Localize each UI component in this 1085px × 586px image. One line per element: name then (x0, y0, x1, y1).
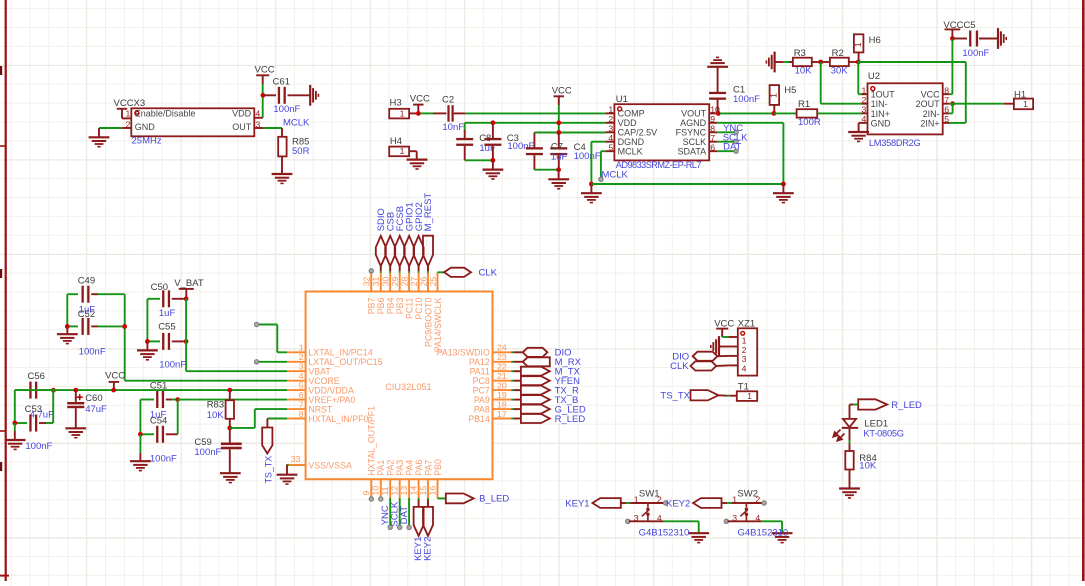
svg-text:R2: R2 (832, 48, 844, 59)
port flag KEY2 (MCU) (427, 498, 429, 500)
svg-text:TS_TX: TS_TX (660, 390, 690, 401)
svg-text:1IN+: 1IN+ (871, 109, 890, 119)
port flag DIO (MCU) (511, 351, 514, 353)
svg-text:100nF: 100nF (962, 48, 989, 59)
wire CAP rail y132 to U1 pin3 (534, 132, 605, 134)
svg-text:2: 2 (608, 114, 613, 124)
capacitor C4 body (left of C7) (533, 133, 535, 149)
svg-text:PB7: PB7 (367, 298, 377, 315)
svg-text:C60: C60 (85, 393, 102, 404)
wire pin9 stub (369, 497, 373, 501)
svg-text:VCC: VCC (552, 85, 572, 96)
sheet border left (5, 0, 7, 581)
svg-text:TS_TX: TS_TX (263, 456, 273, 484)
wire R_LED to LED1 (853, 404, 858, 406)
MCU pin 28 PC11 (408, 273, 410, 292)
svg-text:1OUT: 1OUT (871, 90, 896, 100)
svg-text:PC9/BOOT0: PC9/BOOT0 (423, 298, 433, 347)
svg-text:3: 3 (742, 354, 747, 364)
svg-text:2OUT: 2OUT (916, 99, 941, 109)
svg-text:7: 7 (710, 133, 715, 143)
U1 pin 8 FSYNC (709, 131, 717, 133)
wire 2OUT to H1 (953, 103, 1004, 105)
ground under U2 (848, 131, 869, 133)
header H6 (854, 34, 864, 52)
svg-text:10K: 10K (795, 66, 813, 77)
wire U1 MCLK pin5 stub (601, 150, 605, 152)
svg-text:PC11: PC11 (404, 297, 414, 318)
wire C4 to C7 ground node (534, 169, 558, 171)
svg-text:R1: R1 (798, 99, 810, 110)
port flag R_LED (511, 418, 514, 420)
svg-text:DAT: DAT (399, 506, 410, 524)
port flag B_LED (446, 494, 474, 504)
ground under C60 (65, 427, 86, 429)
wire divider node to 1IN- (820, 62, 822, 104)
ground under C56/C53 (5, 439, 26, 441)
unconnected stub pin32 (369, 269, 373, 273)
wire LXTAL_OUT stub (259, 361, 287, 363)
pin 1 lead of X3 (122, 117, 131, 119)
U1 pin 1 COMP (605, 112, 614, 114)
svg-text:C52: C52 (78, 309, 95, 320)
U2 pin 8 VCC (943, 93, 949, 95)
svg-text:100nF: 100nF (507, 141, 534, 152)
ground under H4 (407, 159, 428, 161)
svg-text:PC7: PC7 (473, 385, 490, 395)
port flag CSB (385, 236, 395, 266)
port flag KEY2 (693, 498, 721, 508)
sheet border bottom-left corner (0, 575, 9, 577)
wire C8/C3 bottoms (465, 159, 493, 161)
U2 pin 5 2IN+ (943, 122, 949, 124)
svg-text:4: 4 (742, 364, 747, 374)
wire VOUT to H5/R1 (720, 112, 774, 114)
U1 pin 4 DGND (605, 141, 614, 143)
svg-text:SCLK: SCLK (683, 137, 707, 147)
svg-text:1: 1 (400, 146, 405, 156)
svg-text:R83: R83 (207, 399, 224, 410)
svg-text:KT-0805G: KT-0805G (863, 429, 903, 439)
svg-text:1uF: 1uF (551, 152, 568, 163)
wire LED1 to R84 (849, 429, 851, 442)
svg-text:C55: C55 (158, 322, 175, 333)
svg-text:24: 24 (497, 343, 507, 353)
wire pin25 to CLK flag (437, 271, 439, 274)
U2 pin 6 2IN- (943, 112, 949, 114)
svg-text:VDD: VDD (618, 118, 638, 128)
port flag FCSB (395, 236, 405, 266)
MCU pin 16 PB0 (437, 479, 439, 498)
svg-text:PA4: PA4 (404, 460, 414, 476)
wire pin11 net YNC (389, 498, 391, 526)
resistor R3 (793, 58, 812, 66)
wire VREF+ to MCU pin6 (178, 399, 287, 401)
svg-text:6: 6 (299, 390, 304, 400)
svg-text:100nF: 100nF (150, 453, 177, 464)
MCU pin 17 PB14 (493, 418, 512, 420)
wire KEY1 to SW1 (621, 502, 627, 504)
ground under C59 (220, 472, 241, 474)
svg-text:100nF: 100nF (25, 441, 52, 452)
ground under C3 (492, 160, 494, 169)
ground under C7 (558, 170, 560, 179)
ground above C1 (707, 66, 728, 68)
U2 pin 4 GND (862, 122, 868, 124)
svg-text:PB4: PB4 (386, 298, 396, 315)
wire R2 node to 1OUT (857, 62, 859, 94)
svg-text:100nF: 100nF (194, 447, 221, 458)
wire U1 DGND pin4 to ground bus (591, 141, 605, 143)
svg-text:30K: 30K (831, 66, 849, 77)
svg-text:4: 4 (657, 513, 662, 523)
port flag TS_TX at MCU (267, 418, 287, 420)
svg-text:C2: C2 (442, 95, 454, 106)
wire R84 to ground (849, 470, 851, 489)
svg-text:10K: 10K (207, 410, 225, 421)
svg-text:8: 8 (944, 85, 949, 95)
svg-text:C50: C50 (151, 282, 168, 293)
port flag SDIO (376, 236, 386, 266)
port flag KEY1 (MCU) (418, 498, 420, 500)
svg-text:LXTAL_IN/PC14: LXTAL_IN/PC14 (308, 348, 372, 358)
port flag DIO at XZ1 (693, 352, 718, 361)
wire ground bus to AGND drop (591, 183, 783, 185)
ground under C50/C55 (137, 349, 158, 351)
svg-text:GND: GND (135, 122, 156, 132)
wire R1 to U2 1IN+ pin3 (817, 112, 861, 114)
svg-text:KEY1: KEY1 (565, 499, 589, 510)
svg-text:VDD/VDDA: VDD/VDDA (308, 385, 354, 395)
svg-text:CLK: CLK (670, 361, 689, 372)
svg-text:3: 3 (732, 513, 737, 523)
wire V_BAT to MCU VBAT pin3 (185, 299, 187, 371)
capacitor C3 (100nF) body (491, 120, 496, 125)
ground under R85 (272, 173, 293, 175)
wire VDD rail y123 (C8/VCC/U1 pin2) (465, 122, 606, 124)
ground under C51/C54 (130, 460, 151, 462)
svg-text:11: 11 (380, 486, 390, 495)
wire KEY2 to SW2 (722, 502, 728, 504)
svg-text:4: 4 (755, 513, 760, 523)
MCU pin 23 PA12 (493, 361, 512, 363)
svg-text:6: 6 (710, 142, 715, 152)
svg-text:MCLK: MCLK (283, 118, 310, 129)
svg-text:GND: GND (871, 118, 892, 128)
svg-text:5: 5 (299, 381, 304, 391)
MCU U3 CIU32L051 body (306, 292, 493, 480)
XZ1 pin 2 (728, 346, 737, 348)
row letter C (clipped) (0, 462, 2, 471)
XZ1 pin 3 (728, 355, 737, 357)
MCU pin 9 HXTAL_OUT/PF1 (370, 479, 372, 498)
MCU pin 25 PA14/SWCLK (437, 273, 439, 292)
ground right of C61 (309, 85, 311, 106)
wire NRST node to MCU pin7 (230, 427, 255, 429)
node H5 junction (772, 111, 777, 116)
MCU pin 33 VSS/VSSA (287, 464, 306, 466)
wire C49/C52 left to ground (66, 294, 68, 326)
svg-text:C49: C49 (78, 275, 95, 286)
MCU pin 4 VCORE (287, 380, 306, 382)
MCU pin 8 HXTAL_IN/PF0 (287, 418, 306, 420)
resistor R2 (830, 58, 849, 66)
wire U1 AGND pin9 to ground (717, 122, 783, 124)
wire C56/C53 left to ground (14, 390, 16, 423)
ground under R84 (839, 487, 860, 489)
svg-text:1: 1 (125, 108, 130, 118)
VCC rail wire to MCU VDD pin5 (15, 389, 287, 391)
svg-text:R_LED: R_LED (891, 400, 922, 411)
svg-text:H3: H3 (390, 98, 402, 109)
MCU pin 26 PC9/BOOT0 (427, 273, 429, 292)
U1 pin 6 SDATA (709, 150, 717, 152)
U1 pin 3 CAP/2.5V (605, 131, 614, 133)
svg-text:PA2: PA2 (386, 460, 396, 476)
wire C50/C55 left to ground (146, 299, 148, 342)
svg-text:25: 25 (428, 276, 438, 286)
node C56/C53 right junction (51, 388, 56, 393)
svg-text:100nF: 100nF (79, 346, 106, 357)
MCU pin 2 LXTAL_OUT/PC15 (287, 361, 306, 363)
node VCC/C61 junction (261, 93, 266, 98)
svg-text:AD9833SRMZ-EP-RL7: AD9833SRMZ-EP-RL7 (616, 160, 702, 170)
wire C51/C54 left to ground (139, 400, 141, 435)
node R3/R2 junction (818, 60, 823, 65)
U1 pin 5 MCLK (605, 150, 614, 152)
wire pin10 stub (379, 497, 383, 501)
MCU pin 27 PC10 (418, 273, 420, 292)
sheet border right (1082, 0, 1085, 581)
svg-text:15: 15 (418, 486, 428, 496)
capacitor C1 (717, 99, 719, 113)
svg-text:PB0: PB0 (433, 459, 443, 476)
MCU pin 24 PA13/SWDIO (493, 351, 512, 353)
svg-text:H5: H5 (784, 85, 796, 96)
node C51 to VREF wire (175, 397, 180, 402)
svg-text:CLK: CLK (479, 268, 498, 279)
MCU pin 15 PA7 (427, 479, 429, 498)
MCU pin 31 PB6 (380, 273, 382, 292)
wire VCC down to U2 pin8 (951, 39, 953, 95)
svg-text:100nF: 100nF (574, 151, 601, 162)
port flag M_TX (511, 370, 514, 372)
MCU pin 1 LXTAL_IN/PC14 (287, 351, 306, 353)
svg-text:V_BAT: V_BAT (174, 278, 204, 289)
MCU pin 29 PB3 (399, 273, 401, 292)
wire feedback node to 2IN+ (858, 61, 966, 63)
svg-text:19: 19 (497, 390, 507, 400)
svg-text:5: 5 (608, 142, 613, 152)
svg-text:HXTAL_OUT/PF1: HXTAL_OUT/PF1 (367, 406, 377, 476)
capacitor C8 (1uF) (464, 123, 466, 131)
svg-text:13: 13 (399, 486, 409, 496)
node R83/C59/NRST junction (227, 426, 232, 431)
svg-text:PB14: PB14 (468, 414, 490, 424)
svg-text:VDD: VDD (232, 109, 252, 119)
svg-text:Enable/Disable: Enable/Disable (135, 109, 196, 119)
wire U1 SCLK pin7 net SCLK (717, 141, 734, 143)
svg-text:33: 33 (291, 454, 301, 464)
polarized capacitor C60 47uF (73, 388, 78, 393)
svg-text:G4B152310: G4B152310 (738, 528, 789, 539)
ground at XZ1 pin2 (718, 336, 720, 357)
U2 pin 1 1OUT (862, 93, 868, 95)
svg-text:PA13/SWDIO: PA13/SWDIO (437, 348, 490, 358)
svg-text:1: 1 (634, 494, 639, 504)
svg-text:M_REST: M_REST (423, 193, 434, 232)
XZ1 pin 4 (728, 364, 737, 366)
ground under SW2 (772, 532, 793, 534)
node VCC/VDD rail junction (556, 120, 561, 125)
svg-text:1: 1 (299, 343, 304, 353)
ground under DGND node (590, 184, 592, 193)
MCU pin 12 PA3 (399, 479, 401, 498)
port flag G_LED (511, 408, 514, 410)
svg-text:VREF+/PA0: VREF+/PA0 (308, 395, 355, 405)
svg-text:22: 22 (497, 362, 507, 372)
ground under SW1 (688, 532, 709, 534)
port flag TX_R (511, 389, 514, 391)
node 2OUT junction (950, 101, 955, 106)
XZ1 pin 1 (728, 336, 737, 338)
svg-text:C51: C51 (150, 380, 167, 391)
svg-text:H6: H6 (869, 35, 881, 46)
port flag GPIO1 (404, 236, 414, 266)
wire C49/C52 right to VCORE (124, 294, 126, 381)
MCU pin 20 PC7 (493, 389, 512, 391)
MCU pin 10 PA1 (380, 479, 382, 498)
U1 pin 9 AGND (709, 122, 717, 124)
svg-text:C56: C56 (28, 371, 45, 382)
wire pin12 net SCLK (399, 498, 401, 526)
svg-text:10nF: 10nF (442, 122, 464, 133)
svg-text:OUT: OUT (232, 122, 252, 132)
svg-text:AGND: AGND (680, 118, 707, 128)
port flag CLK at XZ1 (691, 361, 717, 370)
U1 pin 2 VDD (605, 122, 614, 124)
port flag R_LED (LED) (858, 399, 887, 409)
pin lead H3 (409, 112, 416, 114)
svg-text:20: 20 (497, 381, 507, 391)
svg-text:VCC: VCC (105, 371, 125, 382)
wire H5 node to R1 (774, 112, 797, 114)
svg-text:2IN-: 2IN- (923, 109, 940, 119)
ground at X3 pin2 (98, 128, 100, 137)
wire R2 to H6 node (849, 61, 859, 63)
wire pin16 to B_LED (437, 497, 439, 500)
svg-text:VCC: VCC (921, 90, 941, 100)
svg-text:8: 8 (299, 409, 304, 419)
svg-text:KEY2: KEY2 (666, 499, 690, 510)
svg-text:5: 5 (944, 114, 949, 124)
svg-text:PA11: PA11 (470, 367, 490, 377)
svg-text:HXTAL_IN/PF0: HXTAL_IN/PF0 (308, 414, 368, 424)
U2 pin 3 1IN+ (862, 112, 868, 114)
svg-text:25MHz: 25MHz (132, 136, 162, 147)
svg-text:1: 1 (769, 93, 779, 98)
ground left of R3 (773, 52, 775, 73)
MCU pin 6 VREF+/PA0 (287, 399, 306, 401)
svg-text:16: 16 (427, 486, 437, 496)
wire SW1 bottom contacts (626, 519, 630, 523)
wire U2 GND pin4 to ground (859, 122, 862, 124)
port flag KEY1 (592, 498, 620, 508)
wire 2OUT to 2IN- feedback (949, 103, 953, 105)
svg-text:B_LED: B_LED (479, 494, 509, 505)
svg-text:10K: 10K (859, 461, 877, 472)
MCU pin 30 PB4 (389, 273, 391, 292)
svg-text:100nF: 100nF (733, 94, 760, 105)
svg-text:MCLK: MCLK (618, 147, 643, 157)
wire pin13 net DAT (408, 498, 410, 526)
svg-text:VBAT: VBAT (308, 367, 331, 377)
svg-text:PA14/SWCLK: PA14/SWCLK (433, 297, 443, 352)
svg-text:R_LED: R_LED (555, 414, 586, 425)
svg-text:1: 1 (853, 42, 863, 47)
port flag TS_TX at T1 (691, 390, 719, 400)
svg-text:4: 4 (861, 114, 866, 124)
capacitor C5 body (952, 38, 967, 40)
wire R85 to ground (281, 156, 283, 173)
resistor R85 (278, 137, 286, 157)
node R2/H6 junction (856, 60, 861, 65)
svg-text:SDATA: SDATA (678, 147, 707, 157)
ground under C49/C52 (57, 333, 78, 335)
node VOUT/C1 junction (716, 111, 721, 116)
svg-text:LM358DR2G: LM358DR2G (869, 138, 921, 148)
wire C51/C54 right drop (177, 400, 179, 435)
MCU pin 14 PA6 (418, 479, 420, 498)
svg-text:9: 9 (710, 114, 715, 124)
svg-text:U2: U2 (868, 71, 880, 82)
node CAP rail / C7 junction (556, 130, 561, 135)
wire U1 FSYNC pin8 net YNC (717, 131, 734, 133)
svg-text:50R: 50R (292, 146, 310, 157)
svg-text:1uF: 1uF (159, 308, 176, 319)
svg-text:3: 3 (299, 362, 304, 372)
svg-text:1: 1 (742, 335, 747, 345)
U2 pin 2 1IN- (862, 103, 868, 105)
wire C56/C53 right drop (52, 390, 54, 423)
header H5 (770, 85, 780, 105)
U1 pin 10 VOUT (709, 112, 717, 114)
svg-text:CIU32L051: CIU32L051 (385, 382, 431, 392)
svg-text:32: 32 (362, 276, 372, 286)
MCU pin 7 NRST (287, 408, 306, 410)
resistor R84 (845, 451, 853, 470)
svg-text:R3: R3 (794, 48, 806, 59)
MCU pin 32 PB7 (370, 273, 372, 292)
wire VCC node to C2 (421, 112, 434, 114)
wire U1 SDATA pin6 net DAT (717, 150, 734, 152)
svg-text:VCC: VCC (410, 93, 430, 104)
capacitor C7 body (558, 133, 560, 149)
oscillator X3 body (25MHz) (131, 108, 254, 136)
svg-text:47uF: 47uF (85, 404, 107, 415)
svg-text:1: 1 (747, 391, 752, 401)
port flag M_RX (511, 361, 514, 363)
U2 pin 7 2OUT (943, 103, 949, 105)
svg-text:100nF: 100nF (159, 359, 186, 370)
svg-text:MCLK: MCLK (602, 169, 629, 180)
wire X3 pin2 to ground (99, 127, 122, 129)
svg-text:3: 3 (634, 513, 639, 523)
ground right of C5 (997, 28, 999, 49)
svg-text:1IN-: 1IN- (871, 99, 888, 109)
node H3/VCC junction (416, 111, 421, 116)
svg-text:1: 1 (732, 494, 737, 504)
